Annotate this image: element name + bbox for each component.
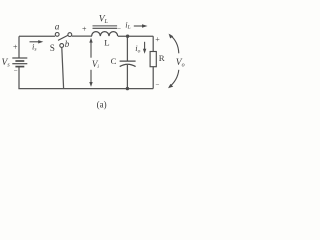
voltage arc arrow Vo	[168, 34, 179, 89]
wire top (inductor to R branch corner)	[118, 35, 153, 37]
wire top-left (source to switch contact a)	[19, 35, 55, 37]
current arrow iL	[134, 24, 148, 28]
svg-text:Vi: Vi	[92, 59, 100, 70]
svg-text:R: R	[159, 53, 165, 63]
svg-text:iL: iL	[125, 19, 130, 30]
svg-text:−: −	[117, 24, 121, 32]
capacitor C curved plate	[120, 64, 136, 66]
svg-text:io: io	[135, 43, 140, 54]
junction node (inductor / capacitor / load)	[126, 35, 129, 38]
wire left rail upper	[18, 36, 20, 57]
svg-text:VL: VL	[99, 15, 109, 26]
svg-text:a: a	[55, 22, 60, 32]
svg-text:(a): (a)	[97, 99, 107, 109]
switch S contact a	[55, 33, 59, 37]
wire left rail lower	[18, 67, 20, 89]
svg-text:Vo: Vo	[176, 58, 185, 69]
inductor L coil	[92, 32, 118, 37]
svg-text:b: b	[65, 39, 70, 49]
wire node b drop	[62, 48, 64, 89]
switch S blade	[58, 35, 68, 40]
svg-text:−: −	[156, 80, 160, 88]
svg-text:C: C	[111, 56, 117, 66]
current arrow io	[143, 42, 146, 54]
current arrow is	[30, 40, 44, 43]
svg-text:+: +	[82, 25, 87, 34]
svg-text:is: is	[32, 41, 37, 52]
junction node (capacitor to bottom rail)	[126, 87, 129, 90]
svg-text:L: L	[104, 38, 109, 48]
svg-text:+: +	[13, 43, 18, 52]
capacitor C top plate	[120, 60, 136, 62]
wire capacitor branch upper	[126, 36, 128, 60]
resistor R	[150, 52, 156, 67]
switch S contact b	[60, 44, 64, 48]
inductor L core bars	[93, 26, 118, 28]
voltage source Vs (battery)	[12, 58, 27, 67]
svg-text:Vs: Vs	[2, 58, 11, 69]
svg-text:S: S	[50, 43, 55, 53]
wire switch pole to inductor	[72, 35, 92, 37]
wire bottom rail	[18, 88, 153, 90]
wire capacitor branch lower	[126, 65, 128, 89]
wire R branch lower	[152, 67, 154, 89]
switch S pole contact	[68, 33, 72, 37]
svg-text:+: +	[155, 35, 160, 44]
svg-text:−: −	[14, 66, 18, 74]
voltage arrow Vi (switch node to ground)	[89, 38, 92, 87]
wire R branch upper	[152, 36, 154, 51]
